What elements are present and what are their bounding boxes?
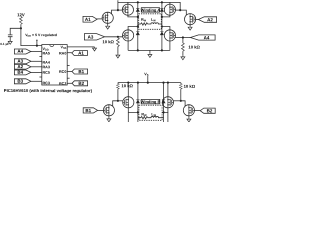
tag B1 bridge <box>83 108 97 113</box>
ground under R3 <box>181 56 185 60</box>
node dot gate A right <box>179 9 181 11</box>
transistor Q8 driver B2 <box>183 105 194 116</box>
VS supply label <box>144 72 148 77</box>
svg-text:A1: A1 <box>78 51 84 56</box>
op-amp U1 PIC16HV610 body <box>42 45 67 85</box>
wire RC2 to tag B2 <box>67 82 72 84</box>
wire tag A2 to Q2 gate <box>196 18 199 20</box>
svg-text:B2: B2 <box>78 81 84 86</box>
ground symbol bridge A <box>148 53 152 57</box>
tag B4 input <box>14 70 31 75</box>
node junction dot <box>20 27 22 29</box>
wire VSS to ground <box>67 46 94 48</box>
svg-text:10 kΩ: 10 kΩ <box>102 39 114 44</box>
svg-text:A4: A4 <box>17 49 23 54</box>
label 10k left B <box>121 83 133 88</box>
svg-text:RA0: RA0 <box>59 51 66 55</box>
inductor LW winding B <box>148 116 164 117</box>
tag B3 input <box>14 79 31 84</box>
svg-text:Winding A: Winding A <box>141 7 161 12</box>
rail B dot terminal right <box>162 82 164 84</box>
diode D1 <box>136 8 139 11</box>
wire Q2 drain to node <box>180 10 186 15</box>
ground at VSS <box>93 47 97 51</box>
wire Q6 drain to terminal <box>162 27 170 31</box>
winding A terminal column right <box>161 2 163 50</box>
wire RA0 to tag A1 <box>67 52 72 54</box>
svg-text:A3: A3 <box>88 34 94 39</box>
svg-text:0.1 µF: 0.1 µF <box>0 42 9 46</box>
wire Q5 drain to terminal <box>128 27 138 31</box>
wire Q10 source to rail B <box>167 83 169 97</box>
wire node down to VDD pin <box>21 28 42 45</box>
svg-text:10 kΩ: 10 kΩ <box>184 84 196 89</box>
wire Q10 column to bottom <box>167 112 169 122</box>
wire tag B4 to RC5 <box>30 71 41 73</box>
node dot terminal left bottom <box>137 25 139 27</box>
bridge A ground rail <box>128 49 170 51</box>
wire R4 to node <box>117 89 119 101</box>
svg-text:RA3: RA3 <box>42 65 49 69</box>
pin label RA5 <box>42 52 49 56</box>
tag A2 input <box>14 64 31 69</box>
wire Q9 column to bottom <box>127 112 129 122</box>
label LW winding A <box>151 18 156 23</box>
node dot A4 resistor <box>182 36 184 38</box>
tag A3 input <box>14 59 31 64</box>
transistor Q6 low-side right <box>164 30 175 41</box>
wire tag A3 to RA4 <box>30 60 41 62</box>
pin label RA0 <box>59 51 66 55</box>
wire resistor R3 to ground <box>182 51 184 56</box>
resistor R4 10k pullup left B <box>117 83 119 84</box>
winding B terminal column left <box>137 83 139 122</box>
svg-text:B1: B1 <box>85 108 91 113</box>
wire Q3 drain to winding terminal <box>128 15 138 17</box>
node dot A3 resistor <box>117 36 119 38</box>
pin label RA3 <box>42 65 49 69</box>
node dot terminal B left <box>137 111 139 113</box>
svg-text:10 kΩ: 10 kΩ <box>121 83 133 88</box>
transistor Q9 high-side left B <box>123 97 134 108</box>
wire Q9 source to rail B <box>127 83 129 97</box>
stub pin right unconnected 2 <box>67 77 69 79</box>
tag A4 input <box>14 49 31 54</box>
stub pin left unconnected 1 <box>39 55 41 57</box>
tag B2 chip output <box>72 81 88 86</box>
label 10k left A <box>102 39 114 44</box>
winding A terminal column left <box>137 2 139 50</box>
wire Q10 drain to terminal B <box>164 108 168 113</box>
svg-text:B4: B4 <box>17 70 23 75</box>
svg-text:A2: A2 <box>207 17 213 22</box>
node dot terminal B right <box>162 111 164 113</box>
VDD = 5V regulated label <box>25 33 57 38</box>
svg-text:RC2: RC2 <box>59 82 66 86</box>
node dot gate B left <box>117 100 119 102</box>
wire Q6 source to ground rail <box>169 41 171 51</box>
label LW winding B <box>151 113 156 118</box>
resistor R2 10k pulldown left <box>117 38 120 47</box>
pin label VDD <box>42 47 48 52</box>
ground under capacitor <box>8 40 12 44</box>
label anchor line <box>36 40 38 45</box>
wire Q8 source to ground <box>188 116 190 118</box>
svg-text:RA4: RA4 <box>42 61 50 65</box>
transistor Q3 high-side left <box>122 4 133 15</box>
resistor R5 10k pullup right B <box>180 83 182 84</box>
bridge A supply feed wire <box>117 0 119 10</box>
chip notch <box>50 45 54 47</box>
pin label RC2 <box>59 82 66 86</box>
pin label VSS <box>60 45 66 50</box>
rail dot left terminal <box>137 1 139 3</box>
svg-text:10 kΩ: 10 kΩ <box>188 45 200 50</box>
wire Q5 source to ground rail <box>127 41 129 51</box>
resistor RW winding A <box>138 23 148 25</box>
wire Q3 source to rail <box>127 2 129 4</box>
resistor R3 10k pulldown right <box>182 38 184 44</box>
rail B dot terminal left <box>137 82 139 84</box>
12V supply label <box>17 12 25 17</box>
wire Q1 source to ground <box>107 23 109 25</box>
resistor R1 (series regulator resistor) <box>20 17 23 25</box>
wire tag B1 to driver gate <box>98 109 104 111</box>
ground under R2 <box>116 54 120 58</box>
tag B1 chip output <box>72 69 88 74</box>
node dot terminal right top <box>161 16 163 18</box>
tag A3 bridge <box>84 34 104 40</box>
winding A label box <box>141 8 159 12</box>
transistor Q1 driver A1 <box>102 12 113 23</box>
rail B dot fet left <box>127 82 129 84</box>
0.1 uF value label <box>0 42 9 46</box>
ground under Q8 <box>187 118 191 122</box>
svg-text:A3: A3 <box>17 59 23 64</box>
wire Q6 gate to tag A4 <box>175 37 191 39</box>
tag A4 bridge <box>190 35 215 40</box>
stub pin left unconnected 2 <box>39 76 41 78</box>
pin label RC0 <box>59 70 66 74</box>
wire Q10 gate from node <box>173 100 181 102</box>
transistor Q7 driver B1 <box>103 105 114 116</box>
wire node to P-FET gate left <box>118 9 123 11</box>
diode D2 <box>160 8 163 11</box>
chip caption <box>4 88 93 93</box>
label 10k right B <box>184 84 196 89</box>
wire Q7 source to ground <box>108 116 110 118</box>
wire tag A4 to RA5 <box>30 51 41 53</box>
wire tag A1 to driver gate <box>97 18 102 20</box>
label RW winding B <box>141 113 147 118</box>
wire Q9 drain to terminal B <box>128 108 138 113</box>
node dot gate B right <box>180 100 182 102</box>
bridge A top rail <box>118 2 180 10</box>
junction dot on VDD wire <box>36 45 38 47</box>
ground under Q7 <box>107 118 111 122</box>
node dot terminal left top <box>137 16 139 18</box>
transistor Q5 low-side left <box>123 30 134 41</box>
rail B dot fet right <box>167 82 169 84</box>
ground rail dot left <box>137 49 139 51</box>
tag A1 chip output <box>72 51 88 56</box>
inductor LW winding A <box>148 23 162 24</box>
wire node to capacitor <box>10 28 21 35</box>
wire Q8 drain to node <box>181 101 185 107</box>
pin label RC3 <box>42 81 49 85</box>
svg-text:RC3: RC3 <box>42 81 49 85</box>
transistor Q2 driver A2 <box>185 14 196 25</box>
transistor Q10 high-side right B <box>162 97 173 108</box>
wire Q4 drain to winding terminal <box>162 15 170 17</box>
ground under Q1 <box>106 25 110 29</box>
wire R5 to node <box>180 89 182 101</box>
wire resistor R2 to ground <box>117 47 119 54</box>
resistor RW winding B <box>138 117 148 119</box>
ground rail dot right <box>161 49 163 51</box>
diode D5 <box>136 100 139 103</box>
wire resistor to node <box>20 24 22 28</box>
wire Q7 drain to node <box>113 101 118 107</box>
tag A1 bridge <box>83 16 97 22</box>
rail dot right terminal <box>161 1 163 3</box>
wire tag A3 to low-side gate <box>105 36 123 38</box>
diode D4 <box>160 32 163 35</box>
wire tag B2 to Q8 gate <box>194 110 200 112</box>
svg-text:B3: B3 <box>17 79 23 84</box>
wire VS to rail B <box>147 76 149 83</box>
diode D6 <box>162 100 165 103</box>
svg-text:RC0: RC0 <box>59 70 66 74</box>
wire node to P-FET gate left B <box>118 100 123 102</box>
stub pin right unconnected 1 <box>67 65 69 67</box>
wire RC0 to tag B1 <box>67 71 72 73</box>
ground stub bridge A <box>149 50 151 53</box>
svg-text:A2: A2 <box>17 64 23 69</box>
wire Q1 drain to node <box>112 10 118 14</box>
rail B dot VS <box>147 82 149 84</box>
capacitor C1 0.1uF <box>8 35 13 41</box>
diode D3 <box>136 32 139 35</box>
label 10k right A <box>188 45 200 50</box>
tag A2 bridge <box>198 17 216 23</box>
svg-text:Winding B: Winding B <box>141 99 161 104</box>
wire Q4 gate from node <box>175 9 180 11</box>
ground under Q2 <box>188 26 192 30</box>
pin label RA4 <box>42 61 50 65</box>
svg-text:A4: A4 <box>204 35 210 40</box>
wire Q4 source to rail <box>169 2 171 4</box>
svg-text:B1: B1 <box>78 69 84 74</box>
svg-text:B2: B2 <box>207 108 213 113</box>
svg-text:PIC16HV610 (with internal volt: PIC16HV610 (with internal voltage regula… <box>4 88 93 93</box>
wire tag A2 to RA3 <box>30 66 41 68</box>
winding B terminal column right <box>163 83 165 122</box>
wire Q2 source to ground <box>189 25 191 26</box>
winding B label box <box>141 99 160 103</box>
label RW winding A <box>141 18 147 23</box>
svg-text:RC5: RC5 <box>42 71 49 75</box>
winding B model dashed box <box>139 105 162 120</box>
tag B2 bridge <box>200 108 215 113</box>
svg-text:RA5: RA5 <box>42 52 49 56</box>
node dot gate A left <box>117 9 119 11</box>
svg-text:A1: A1 <box>85 17 91 22</box>
pin label RC5 <box>42 71 49 75</box>
wire tag B3 to RC3 <box>30 80 41 82</box>
transistor Q4 high-side right <box>164 4 175 15</box>
label anchor dot <box>36 40 37 41</box>
winding A model dashed box <box>139 14 162 29</box>
bridge B top rail <box>118 82 181 84</box>
node dot terminal right bottom <box>161 25 163 27</box>
